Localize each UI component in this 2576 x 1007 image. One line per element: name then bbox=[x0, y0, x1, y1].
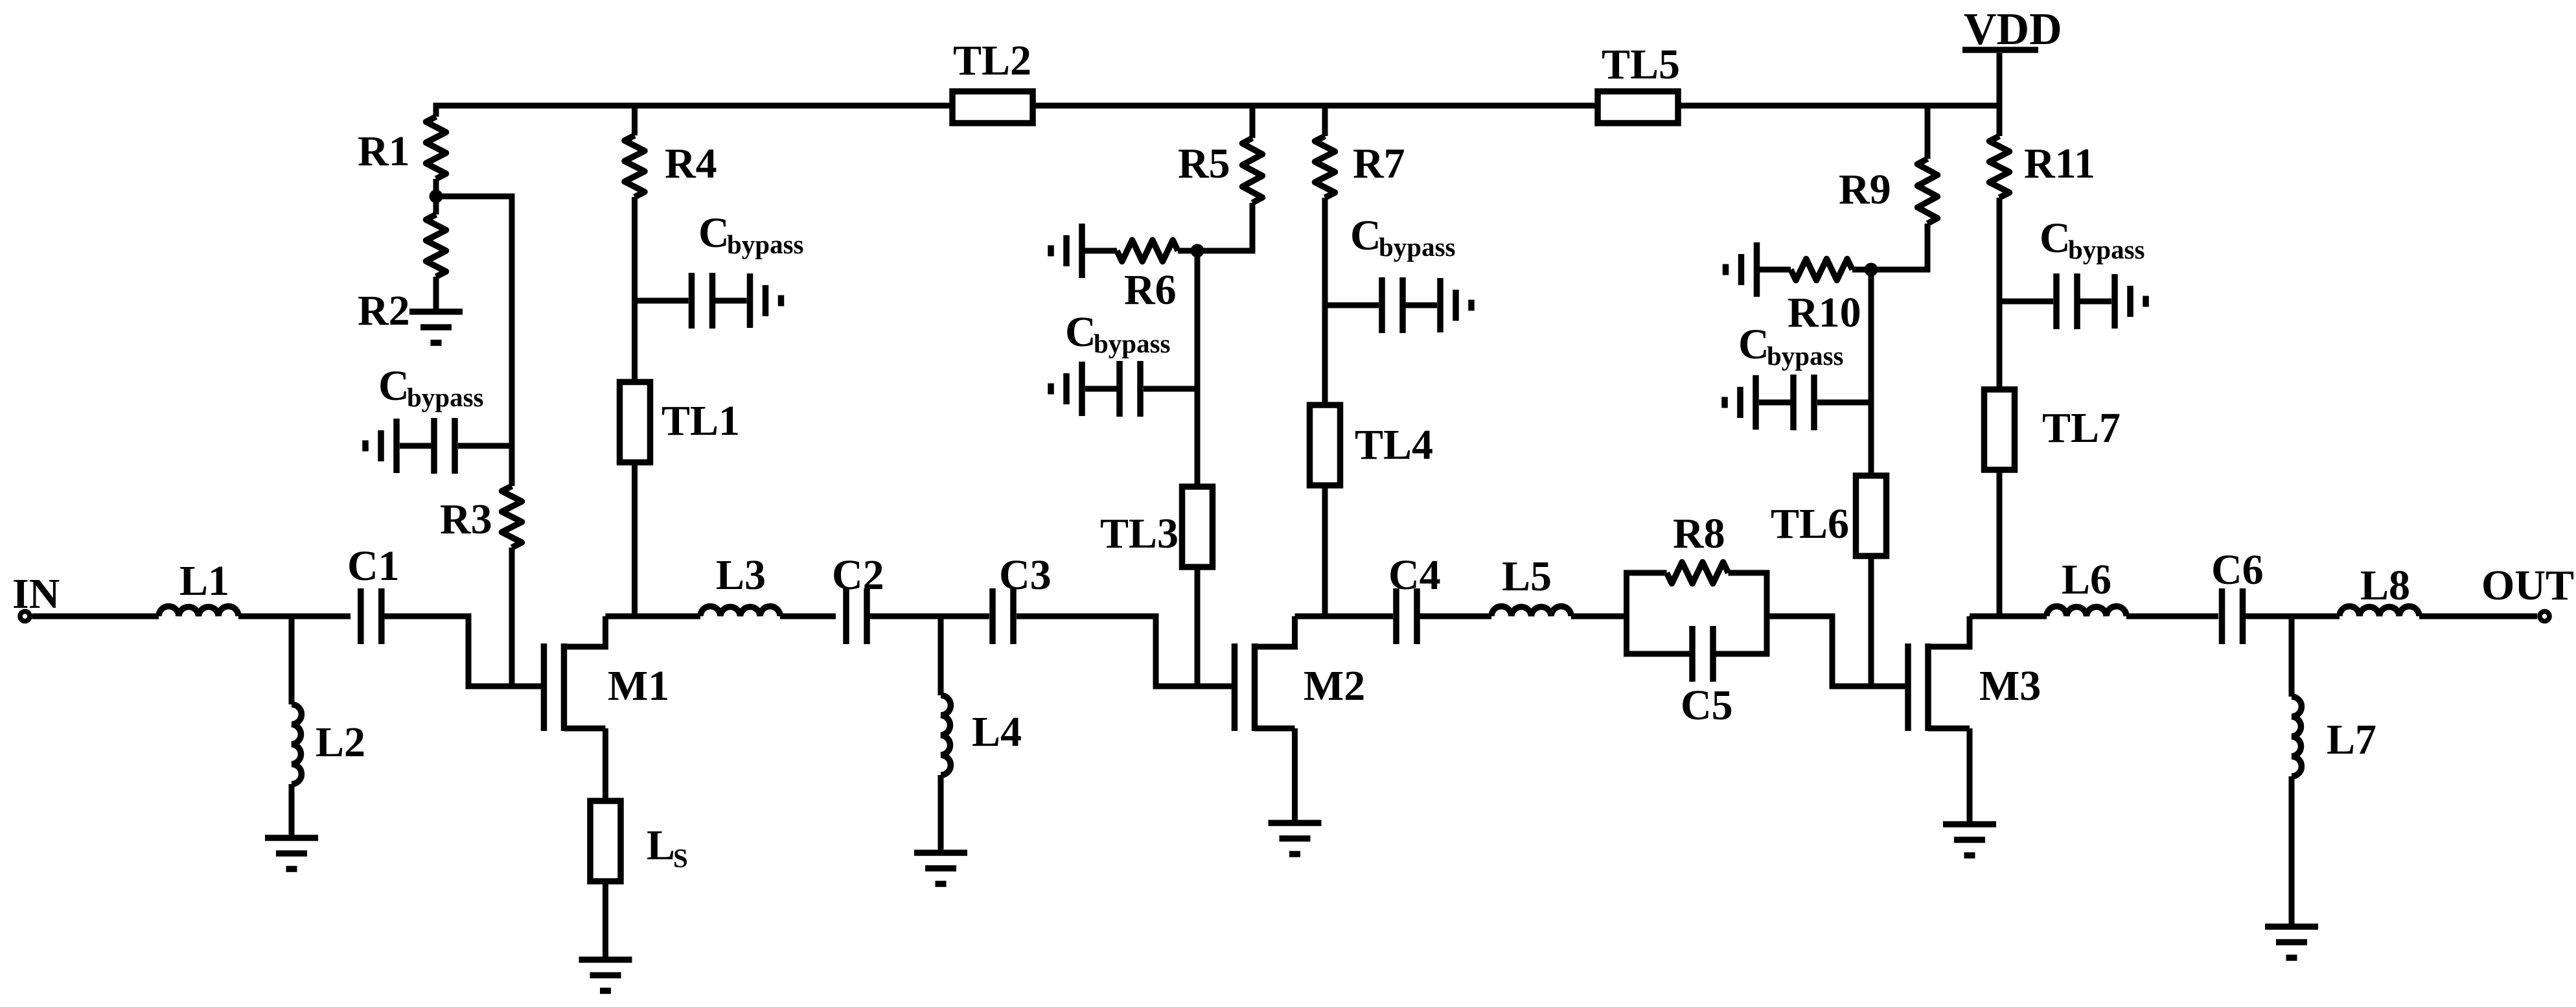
svg-text:R7: R7 bbox=[1353, 140, 1405, 187]
svg-text:TL1: TL1 bbox=[661, 397, 740, 445]
svg-text:C: C bbox=[378, 362, 409, 410]
svg-text:TL3: TL3 bbox=[1100, 510, 1179, 557]
svg-text:R2: R2 bbox=[358, 287, 410, 334]
svg-text:C: C bbox=[1738, 321, 1769, 368]
svg-text:R11: R11 bbox=[2024, 140, 2095, 187]
svg-text:bypass: bypass bbox=[407, 382, 484, 412]
svg-text:L6: L6 bbox=[2062, 556, 2111, 603]
svg-text:L1: L1 bbox=[179, 557, 229, 605]
svg-text:M2: M2 bbox=[1304, 662, 1365, 710]
svg-text:S: S bbox=[673, 843, 688, 873]
svg-text:TL2: TL2 bbox=[953, 37, 1031, 84]
svg-text:L3: L3 bbox=[716, 551, 766, 599]
svg-text:C6: C6 bbox=[2211, 546, 2264, 594]
svg-text:OUT: OUT bbox=[2481, 562, 2574, 609]
svg-text:R10: R10 bbox=[1788, 289, 1861, 336]
svg-text:C4: C4 bbox=[1388, 551, 1441, 599]
svg-text:R6: R6 bbox=[1124, 266, 1177, 314]
svg-text:C: C bbox=[2040, 214, 2071, 262]
svg-text:TL5: TL5 bbox=[1602, 41, 1680, 88]
svg-text:TL7: TL7 bbox=[2042, 404, 2121, 452]
svg-text:L2: L2 bbox=[316, 719, 365, 766]
svg-text:L8: L8 bbox=[2360, 562, 2410, 609]
svg-text:TL4: TL4 bbox=[1355, 421, 1433, 469]
svg-text:bypass: bypass bbox=[1094, 329, 1171, 358]
svg-text:R9: R9 bbox=[1839, 166, 1891, 213]
svg-text:C: C bbox=[1065, 308, 1096, 356]
svg-text:C: C bbox=[698, 209, 730, 257]
svg-text:VDD: VDD bbox=[1964, 5, 2062, 54]
svg-text:IN: IN bbox=[12, 570, 60, 618]
svg-text:L7: L7 bbox=[2327, 716, 2376, 763]
svg-text:C5: C5 bbox=[1681, 682, 1733, 729]
svg-text:bypass: bypass bbox=[727, 229, 804, 259]
svg-text:bypass: bypass bbox=[1379, 232, 1456, 262]
svg-text:L4: L4 bbox=[972, 708, 1022, 756]
svg-text:C1: C1 bbox=[347, 542, 400, 590]
svg-text:C2: C2 bbox=[832, 551, 884, 599]
svg-text:R3: R3 bbox=[440, 496, 492, 543]
svg-text:L: L bbox=[647, 822, 675, 869]
svg-text:bypass: bypass bbox=[1767, 341, 1844, 371]
svg-text:L5: L5 bbox=[1502, 553, 1552, 600]
svg-text:R8: R8 bbox=[1673, 510, 1725, 557]
svg-text:M3: M3 bbox=[1979, 662, 2041, 710]
svg-text:R1: R1 bbox=[358, 128, 410, 175]
svg-text:bypass: bypass bbox=[2068, 235, 2145, 264]
svg-text:R4: R4 bbox=[665, 140, 717, 187]
svg-text:C: C bbox=[1350, 212, 1381, 259]
svg-text:TL6: TL6 bbox=[1771, 500, 1849, 548]
svg-text:M1: M1 bbox=[608, 662, 669, 710]
svg-text:R5: R5 bbox=[1178, 140, 1230, 187]
svg-text:C3: C3 bbox=[999, 551, 1052, 599]
